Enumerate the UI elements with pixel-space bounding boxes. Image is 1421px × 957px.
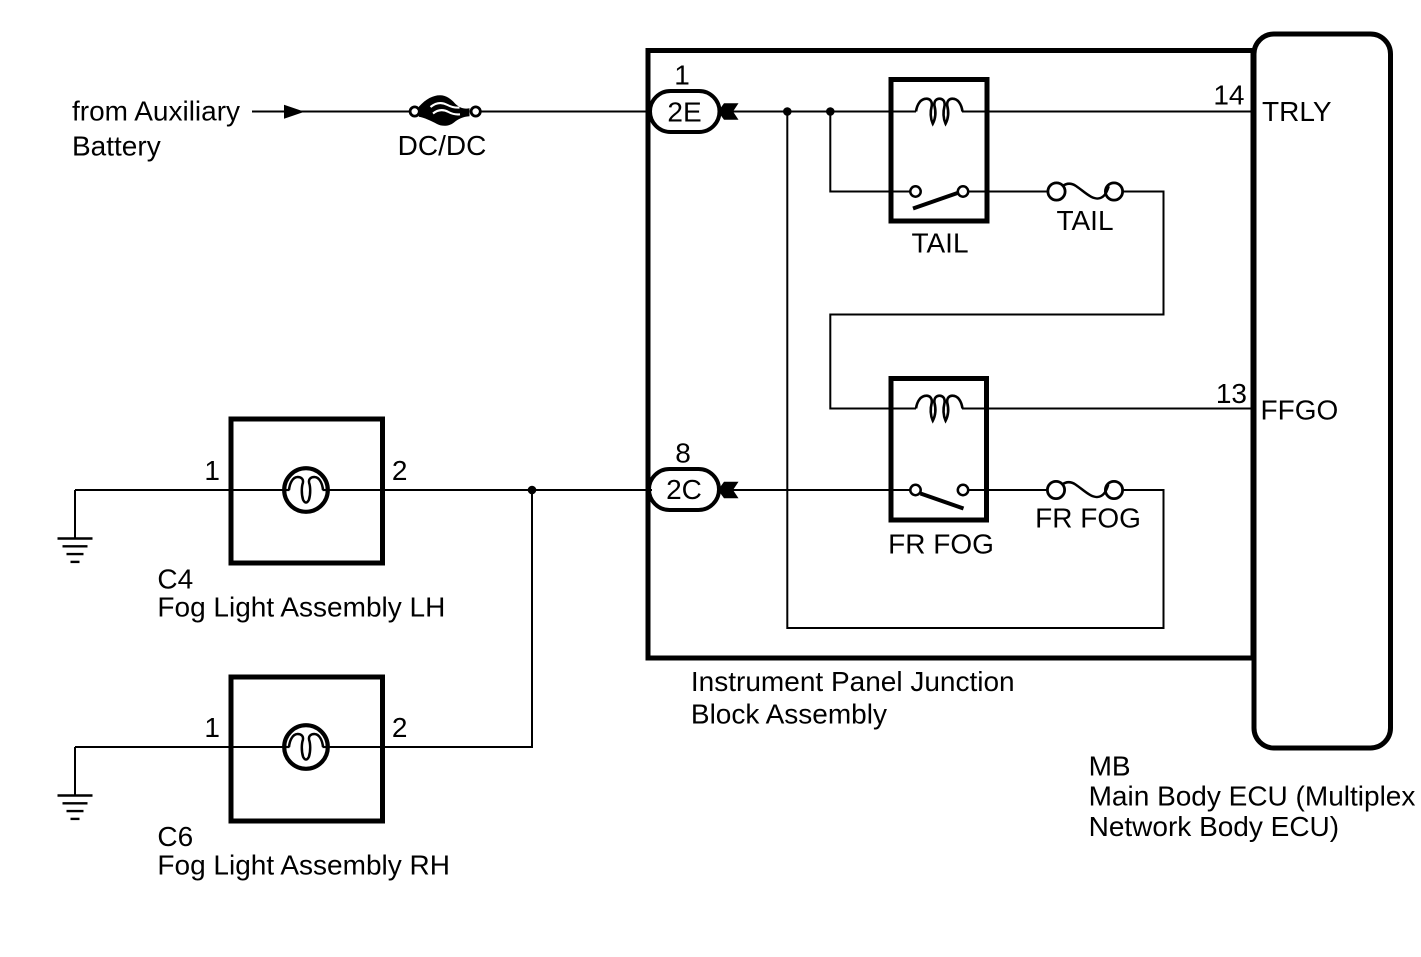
svg-text:Block Assembly: Block Assembly bbox=[691, 699, 887, 730]
wire: FR FOG relay to FR FOG fuse bbox=[969, 489, 1048, 491]
svg-text:Fog Light Assembly RH: Fog Light Assembly RH bbox=[157, 850, 450, 881]
svg-text:Network Body ECU): Network Body ECU) bbox=[1089, 811, 1340, 842]
svg-text:DC/DC: DC/DC bbox=[398, 130, 487, 161]
svg-text:1: 1 bbox=[204, 712, 220, 743]
wire: TAIL fuse output loop to FR FOG relay coil bbox=[830, 192, 1163, 409]
fog light C4 box bbox=[231, 419, 383, 563]
arrow into connector 2E bbox=[718, 103, 739, 120]
svg-text:Battery: Battery bbox=[72, 131, 161, 162]
bulb C4 bbox=[284, 468, 328, 512]
wire: dot B down to TAIL relay switch bbox=[830, 112, 910, 192]
svg-text:TRLY: TRLY bbox=[1262, 96, 1332, 127]
junction dot C bbox=[528, 486, 537, 495]
svg-text:13: 13 bbox=[1216, 378, 1247, 409]
fuse TAIL bbox=[1048, 183, 1123, 200]
wire: C4 bulb to 2C bbox=[328, 489, 653, 491]
svg-text:TAIL: TAIL bbox=[1056, 205, 1113, 236]
ECU box MB Main Body ECU bbox=[1254, 34, 1391, 748]
junction dot A bbox=[783, 107, 792, 116]
main wire 2E row bbox=[733, 111, 916, 113]
wire: 2E feed down loop to FR FOG fuse bbox=[787, 112, 1163, 629]
relay FR FOG bbox=[891, 379, 987, 521]
connector 2E bbox=[650, 91, 720, 132]
svg-text:2E: 2E bbox=[667, 97, 701, 128]
svg-text:FFGO: FFGO bbox=[1261, 395, 1339, 426]
noise filter DC/DC bbox=[410, 95, 480, 125]
flow arrow on battery wire bbox=[284, 105, 305, 119]
svg-text:from Auxiliary: from Auxiliary bbox=[72, 96, 240, 127]
junction block box: Instrument Panel Junction Block Assembly bbox=[648, 51, 1253, 659]
bulb C6 bbox=[284, 725, 328, 769]
wire: FR FOG coil to ECU pin 13 bbox=[962, 408, 1253, 410]
svg-text:Fog Light Assembly LH: Fog Light Assembly LH bbox=[157, 592, 445, 623]
svg-text:MB: MB bbox=[1089, 751, 1131, 782]
wire: ground to C4 bulb bbox=[75, 489, 285, 491]
svg-text:Main Body ECU (Multiplex: Main Body ECU (Multiplex bbox=[1089, 781, 1416, 812]
svg-text:2: 2 bbox=[392, 455, 408, 486]
svg-text:8: 8 bbox=[675, 438, 691, 469]
wire: TAIL coil to ECU pin 14 bbox=[962, 111, 1253, 113]
relay TAIL bbox=[891, 80, 987, 222]
svg-text:C4: C4 bbox=[157, 564, 193, 595]
wire from battery to DC/DC bbox=[252, 111, 409, 113]
svg-text:Instrument Panel Junction: Instrument Panel Junction bbox=[691, 666, 1015, 697]
wire: TAIL relay to TAIL fuse bbox=[969, 191, 1048, 193]
svg-text:FR FOG: FR FOG bbox=[888, 529, 994, 560]
svg-text:1: 1 bbox=[674, 60, 690, 91]
wire: 2C to FR FOG relay switch bbox=[733, 489, 910, 491]
svg-text:C6: C6 bbox=[157, 821, 193, 852]
arrow into connector 2C bbox=[718, 482, 739, 499]
svg-text:2: 2 bbox=[392, 712, 408, 743]
connector 2C bbox=[649, 469, 719, 510]
svg-text:FR FOG: FR FOG bbox=[1035, 503, 1141, 534]
ground C6 bbox=[58, 747, 93, 819]
svg-text:1: 1 bbox=[204, 455, 220, 486]
fuse FR FOG bbox=[1047, 481, 1122, 498]
fog light C6 box bbox=[231, 677, 383, 821]
wire: dot C down to C6 bbox=[328, 490, 533, 747]
wire: ground to C6 bulb bbox=[75, 746, 285, 748]
junction dot B bbox=[826, 107, 835, 116]
ground C4 bbox=[58, 490, 93, 562]
svg-text:14: 14 bbox=[1213, 79, 1244, 110]
wire DC/DC to connector 2E bbox=[481, 111, 652, 113]
svg-text:TAIL: TAIL bbox=[911, 227, 968, 258]
svg-text:2C: 2C bbox=[666, 474, 702, 505]
